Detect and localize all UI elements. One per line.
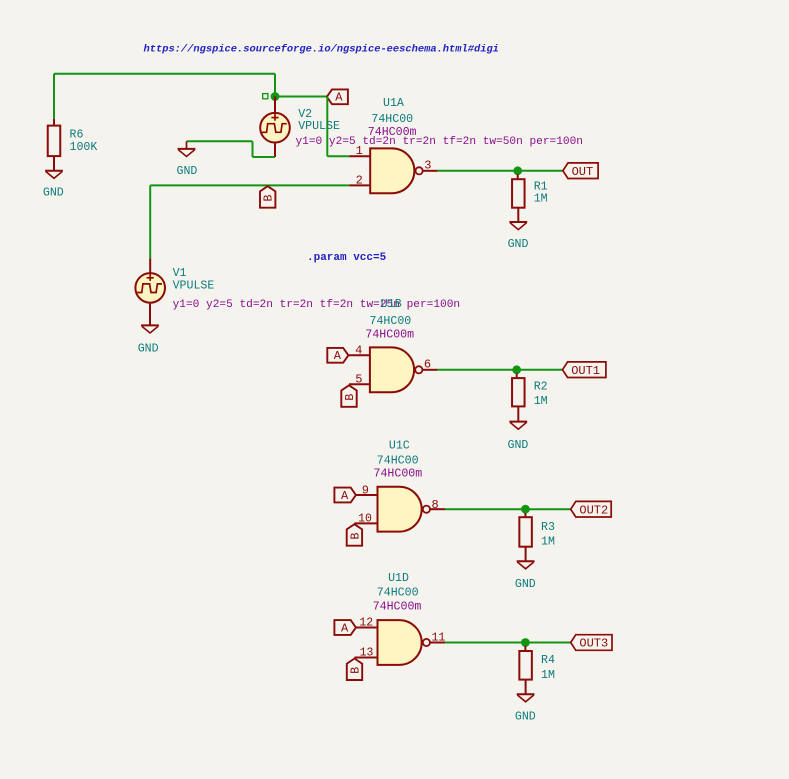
svg-text:B: B — [349, 667, 362, 674]
svg-text:https://ngspice.sourceforge.io: https://ngspice.sourceforge.io/ngspice-e… — [144, 44, 499, 56]
svg-text:V1: V1 — [173, 267, 187, 280]
svg-text:U1D: U1D — [388, 572, 409, 585]
svg-text:A: A — [341, 621, 349, 635]
svg-text:R1: R1 — [534, 180, 548, 193]
svg-text:74HC00m: 74HC00m — [365, 329, 414, 342]
svg-text:1M: 1M — [534, 193, 548, 206]
svg-text:1M: 1M — [541, 536, 555, 549]
svg-text:B: B — [349, 532, 362, 539]
svg-text:A: A — [334, 349, 342, 363]
svg-text:U1A: U1A — [383, 97, 404, 110]
svg-text:VPULSE: VPULSE — [298, 120, 340, 133]
svg-text:U1C: U1C — [389, 439, 410, 452]
svg-text:GND: GND — [508, 238, 529, 251]
svg-text:GND: GND — [508, 439, 529, 452]
svg-text:10: 10 — [358, 513, 372, 526]
svg-text:74HC00m: 74HC00m — [374, 468, 423, 481]
svg-text:.param vcc=5: .param vcc=5 — [307, 252, 387, 264]
svg-text:R6: R6 — [70, 128, 84, 141]
svg-text:4: 4 — [355, 343, 362, 357]
svg-text:U1B: U1B — [381, 298, 402, 311]
svg-text:1M: 1M — [534, 395, 548, 408]
svg-text:OUT2: OUT2 — [579, 503, 608, 517]
svg-text:74HC00: 74HC00 — [371, 113, 413, 126]
svg-text:74HC00m: 74HC00m — [368, 126, 417, 139]
svg-text:B: B — [263, 194, 276, 201]
svg-text:9: 9 — [362, 483, 369, 497]
svg-text:R2: R2 — [534, 381, 548, 394]
svg-text:OUT3: OUT3 — [579, 637, 608, 651]
svg-text:74HC00m: 74HC00m — [373, 601, 422, 614]
svg-text:74HC00: 74HC00 — [377, 454, 419, 467]
svg-text:OUT1: OUT1 — [571, 364, 600, 378]
svg-text:74HC00: 74HC00 — [377, 586, 419, 599]
svg-text:5: 5 — [355, 372, 362, 386]
svg-text:GND: GND — [43, 187, 64, 200]
svg-text:100K: 100K — [70, 141, 98, 154]
svg-text:GND: GND — [515, 578, 536, 591]
svg-text:74HC00: 74HC00 — [370, 315, 412, 328]
svg-text:13: 13 — [360, 647, 374, 660]
svg-text:R3: R3 — [541, 521, 555, 534]
svg-text:OUT: OUT — [572, 165, 594, 179]
svg-text:1: 1 — [356, 144, 363, 158]
svg-text:12: 12 — [359, 617, 373, 630]
svg-text:GND: GND — [177, 165, 198, 178]
svg-text:1M: 1M — [541, 669, 555, 682]
svg-text:R4: R4 — [541, 654, 555, 667]
svg-text:y1=0 y2=5 td=2n tr=2n tf=2n tw: y1=0 y2=5 td=2n tr=2n tf=2n tw=50n per=1… — [296, 136, 583, 148]
svg-text:GND: GND — [515, 711, 536, 724]
svg-text:y1=0 y2=5 td=2n tr=2n tf=2n tw: y1=0 y2=5 td=2n tr=2n tf=2n tw=25n per=1… — [173, 299, 460, 311]
svg-text:B: B — [344, 394, 357, 401]
svg-text:VPULSE: VPULSE — [173, 280, 215, 293]
svg-text:GND: GND — [138, 343, 159, 356]
svg-text:A: A — [335, 91, 343, 105]
svg-text:2: 2 — [356, 174, 363, 188]
svg-text:A: A — [341, 489, 349, 503]
